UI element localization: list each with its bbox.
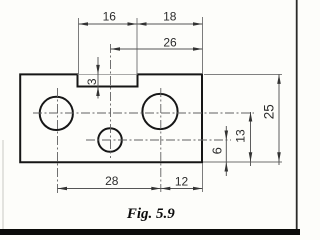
extension line: bottom edge to the right (to 25 dim) (203, 161, 282, 163)
arrow 13 bottom (249, 152, 253, 162)
hole: small middle circle (98, 128, 122, 152)
plate outline with notch (20, 74, 202, 162)
arrow 26 left (111, 47, 121, 51)
svg-text:13: 13 (234, 129, 248, 143)
extension line: top edge level across notch (78, 73, 138, 75)
arrow 26 right (193, 47, 203, 51)
extension line: notch left corner up (78, 18, 80, 74)
dimension line 16/18 (79, 23, 203, 25)
hole: right large circle (142, 94, 177, 129)
arrow 6 top (points down to centerline, outside) (225, 131, 229, 141)
center line: vertical left circle (extends to 28 dim) (57, 88, 59, 194)
dimension line 3 (vertical at notch) (97, 57, 99, 99)
dimension line 13 (vertical, right circle center to bottom) (250, 112, 252, 166)
arrow 25 top (277, 74, 281, 84)
svg-text:Fig. 5.9: Fig. 5.9 (126, 206, 175, 222)
svg-text:16: 16 (103, 10, 117, 24)
hole: left large circle (40, 97, 73, 130)
arrow 28 right (151, 187, 161, 191)
center line: horizontal through large circles (33, 112, 254, 114)
arrow 3 bottom (points up to notch bottom) (96, 87, 100, 97)
extension line: notch right corner up (136, 18, 138, 74)
svg-text:12: 12 (175, 174, 189, 188)
arrow 12 right (193, 187, 203, 191)
svg-text:25: 25 (262, 104, 277, 119)
dimension line 28/12 (58, 188, 203, 190)
scan artifact: right border line (296, 0, 298, 235)
arrow 13 top (249, 112, 253, 122)
arrow 18 left (137, 22, 147, 26)
center line: vertical right circle (extends to 12 dim) (160, 88, 162, 192)
arrow 6 bottom (points up to bottom edge, outside) (225, 162, 229, 172)
scan artifact: faint left border line (2, 140, 4, 229)
svg-text:28: 28 (105, 174, 119, 188)
extension line: top edge to the right (to 25 dim) (204, 73, 282, 75)
svg-text:3: 3 (85, 78, 99, 85)
svg-text:18: 18 (163, 9, 177, 23)
arrow 12 left (161, 187, 171, 191)
arrow 16 left (79, 22, 89, 26)
arrow 28 left (58, 187, 68, 191)
extension line: plate top-right corner up (202, 17, 204, 74)
arrow 16 right (128, 22, 138, 26)
center line: horizontal through small circle (86, 139, 231, 141)
arrow 3 top (points down to top edge) (96, 65, 100, 75)
extension line: plate right edge down (to 12 dim) (202, 163, 204, 192)
arrow 25 bottom (277, 152, 281, 162)
dimension line 6 (vertical, small circle center to bottom) (225, 126, 227, 176)
dimension line 26 (111, 48, 203, 50)
center line: vertical small circle (extends up to 26 dim) (110, 44, 112, 158)
svg-text:26: 26 (163, 35, 177, 49)
dimension line 25 (vertical, full height) (278, 74, 280, 165)
svg-text:6: 6 (210, 147, 225, 154)
arrow 18 right (193, 22, 203, 26)
scan artifact: bottom black bar (0, 229, 300, 235)
